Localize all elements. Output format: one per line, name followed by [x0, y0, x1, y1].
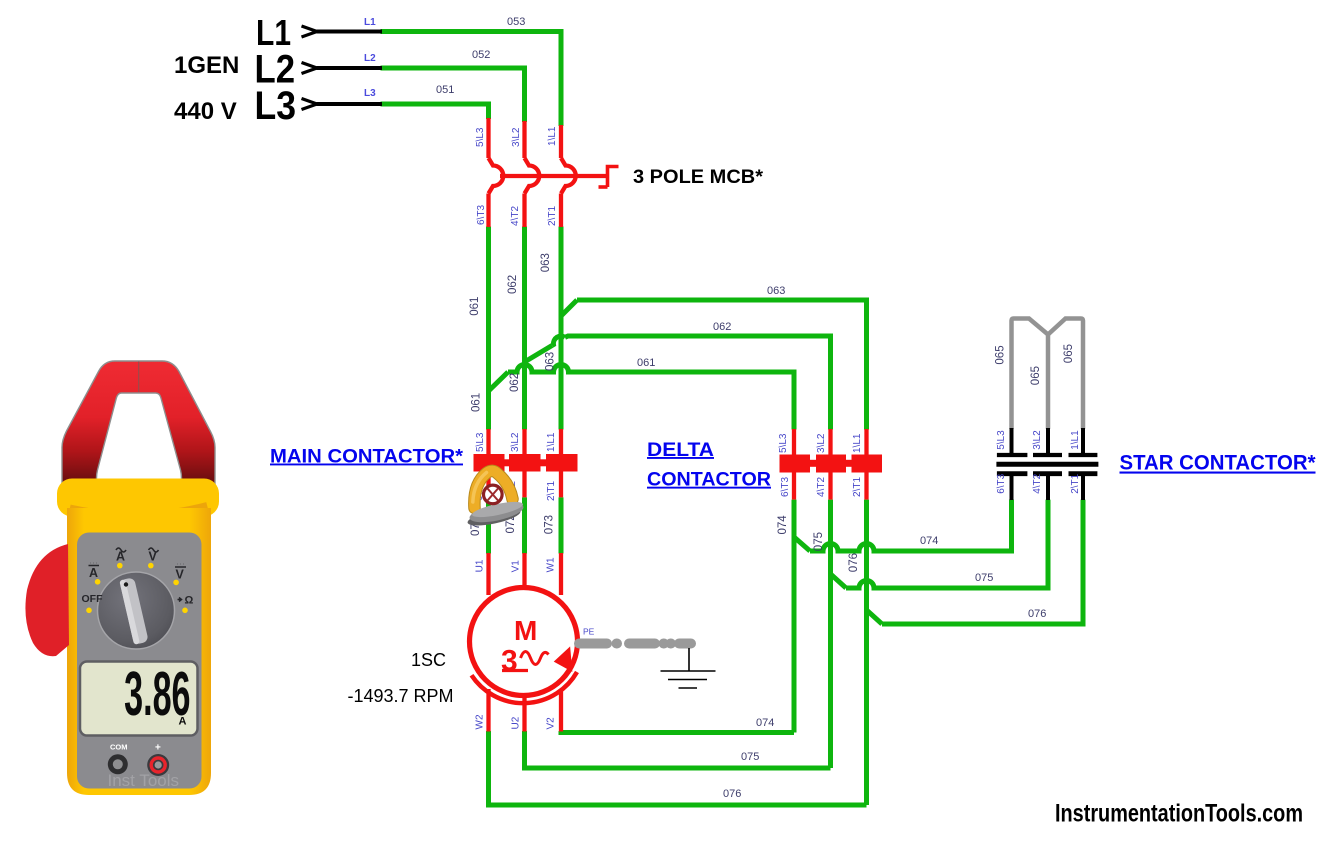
svg-text:L2: L2: [364, 53, 376, 64]
svg-text:U2: U2: [511, 716, 522, 729]
svg-text:COM: COM: [110, 743, 128, 752]
svg-text:3\L2: 3\L2: [511, 127, 522, 147]
svg-text:3: 3: [501, 645, 518, 678]
svg-text:075: 075: [741, 751, 759, 763]
svg-text:2\T1: 2\T1: [546, 481, 557, 501]
svg-text:2\T1: 2\T1: [1070, 473, 1081, 493]
svg-text:1\L1: 1\L1: [546, 432, 557, 452]
svg-text:A: A: [179, 716, 187, 728]
svg-text:3\L2: 3\L2: [510, 432, 521, 452]
svg-text:061: 061: [469, 297, 481, 316]
svg-text:V1: V1: [511, 560, 522, 573]
svg-text:L3: L3: [364, 88, 376, 99]
svg-text:075: 075: [813, 532, 825, 551]
svg-text:L3: L3: [255, 84, 297, 128]
svg-text:6\T3: 6\T3: [996, 473, 1007, 493]
svg-text:053: 053: [507, 16, 525, 28]
svg-text:061: 061: [471, 393, 483, 412]
svg-text:1\L1: 1\L1: [1070, 430, 1081, 450]
svg-text:5\L3: 5\L3: [475, 127, 486, 147]
svg-text:V: V: [176, 568, 185, 582]
svg-text:062: 062: [713, 321, 731, 333]
svg-text:Inst Tools: Inst Tools: [108, 771, 180, 790]
svg-text:065: 065: [1030, 366, 1042, 385]
svg-text:051: 051: [436, 84, 454, 96]
svg-text:1\L1: 1\L1: [852, 433, 863, 453]
svg-text:065: 065: [1063, 344, 1075, 363]
svg-text:074: 074: [756, 717, 774, 729]
svg-text:+: +: [155, 743, 161, 754]
svg-text:062: 062: [509, 373, 521, 392]
svg-text:6\T3: 6\T3: [476, 205, 487, 225]
svg-text:-1493.7 RPM: -1493.7 RPM: [348, 686, 454, 706]
svg-text:6\T3: 6\T3: [780, 477, 791, 497]
svg-text:L1: L1: [364, 17, 376, 28]
svg-text:M: M: [514, 615, 537, 646]
svg-text:Ω: Ω: [185, 595, 194, 607]
svg-text:076: 076: [1028, 608, 1046, 620]
svg-text:074: 074: [777, 515, 789, 535]
svg-text:2\T1: 2\T1: [852, 477, 863, 497]
svg-text:065: 065: [995, 345, 1007, 364]
svg-text:075: 075: [975, 572, 993, 584]
svg-text:5\L3: 5\L3: [475, 432, 486, 452]
svg-text:W1: W1: [546, 557, 557, 572]
svg-text:3 POLE MCB*: 3 POLE MCB*: [633, 167, 764, 188]
svg-text:InstrumentationTools.com: InstrumentationTools.com: [1055, 800, 1303, 828]
svg-text:1\L1: 1\L1: [547, 126, 558, 146]
svg-text:074: 074: [920, 535, 938, 547]
svg-text:5\L3: 5\L3: [996, 430, 1007, 450]
svg-text:4\T2: 4\T2: [1032, 473, 1043, 493]
svg-text:4\T2: 4\T2: [510, 206, 521, 226]
svg-text:4\T2: 4\T2: [816, 477, 827, 497]
svg-text:CONTACTOR: CONTACTOR: [647, 470, 771, 491]
svg-text:3\L2: 3\L2: [1032, 430, 1043, 450]
svg-text:V2: V2: [546, 717, 557, 730]
svg-text:1SC: 1SC: [411, 650, 446, 670]
svg-text:076: 076: [848, 553, 860, 572]
svg-text:OFF: OFF: [82, 593, 104, 605]
svg-text:052: 052: [472, 49, 490, 61]
svg-text:073: 073: [544, 515, 556, 534]
svg-text:5\L3: 5\L3: [778, 433, 789, 453]
svg-text:062: 062: [507, 275, 519, 294]
svg-text:063: 063: [540, 253, 552, 272]
svg-text:MAIN CONTACTOR*: MAIN CONTACTOR*: [270, 447, 464, 468]
svg-text:076: 076: [723, 788, 741, 800]
svg-text:A: A: [89, 566, 98, 580]
svg-text:063: 063: [545, 352, 557, 371]
svg-text:440 V: 440 V: [174, 98, 237, 125]
svg-text:2\T1: 2\T1: [547, 206, 558, 226]
svg-text:3\L2: 3\L2: [816, 433, 827, 453]
svg-text:DELTA: DELTA: [647, 440, 714, 461]
svg-text:063: 063: [767, 285, 785, 297]
svg-text:1GEN: 1GEN: [174, 52, 239, 79]
svg-text:U1: U1: [475, 559, 486, 572]
svg-text:W2: W2: [475, 714, 486, 729]
svg-text:061: 061: [637, 357, 655, 369]
svg-text:STAR CONTACTOR*: STAR CONTACTOR*: [1120, 452, 1317, 475]
svg-text:PE: PE: [583, 627, 595, 637]
